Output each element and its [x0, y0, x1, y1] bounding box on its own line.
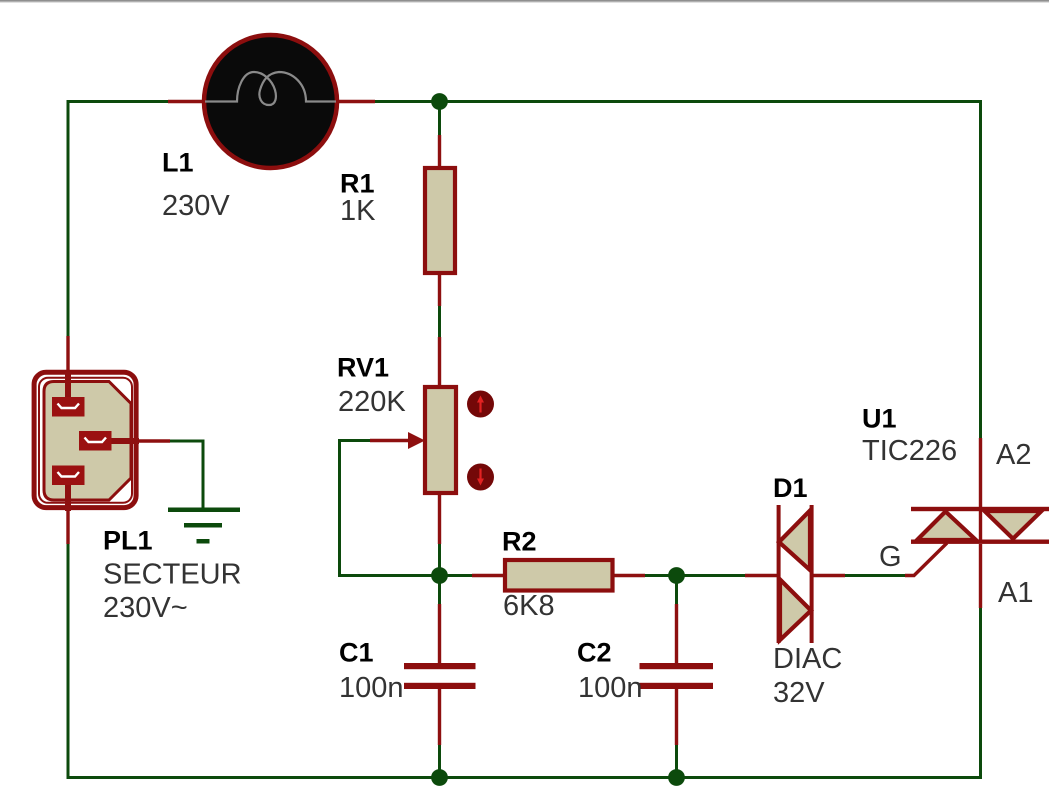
wire bottom rail green [67, 776, 983, 779]
svg-text:L1: L1 [162, 148, 194, 178]
svg-text:6K8: 6K8 [503, 590, 555, 622]
resistor R2 [505, 560, 613, 591]
wire node2 to C2 green [675, 576, 678, 605]
svg-text:100n: 100n [339, 672, 404, 704]
wire diac to gate green [845, 574, 905, 577]
wire plug top pin [66, 336, 69, 372]
wire RV1 wiper red segment [370, 439, 411, 442]
wire R2 to node2 green [645, 574, 677, 577]
svg-text:DIAC: DIAC [773, 643, 842, 675]
svg-text:220K: 220K [338, 386, 406, 418]
RV1 up indicator [467, 391, 494, 418]
wire C2 top pin [675, 604, 678, 664]
wire triac A2 pin [979, 438, 982, 507]
wire diac right pin [812, 574, 845, 577]
wire RV1 wiper green [340, 441, 440, 576]
svg-text:C2: C2 [577, 638, 612, 668]
svg-text:R2: R2 [502, 527, 537, 557]
wire node to C1 green [438, 576, 441, 605]
wire plug bottom pin [66, 509, 69, 544]
svg-text:A1: A1 [998, 577, 1033, 609]
wire R1 to RV1 green [438, 306, 441, 337]
ground [168, 508, 240, 544]
wire node to R2 green [440, 574, 473, 577]
wire RV1 to node green [438, 544, 441, 576]
wire RV1 top pin [438, 337, 441, 387]
wire R2 right pin [613, 574, 646, 577]
svg-text:230V~: 230V~ [103, 592, 188, 624]
wire C1 bottom pin [438, 688, 441, 745]
wire gate red [905, 543, 947, 576]
node junction bottom C1 [431, 769, 448, 786]
wire C1 top pin [438, 604, 441, 664]
node junction R2 left [431, 567, 448, 584]
connector PL1 [34, 372, 139, 511]
RV1 down indicator [467, 464, 494, 491]
wire top rail right green [375, 100, 982, 103]
wire lamp left pin [168, 100, 204, 103]
svg-text:PL1: PL1 [103, 526, 153, 556]
wire right rail lower green [979, 608, 982, 779]
wire C2 bottom pin [675, 688, 678, 745]
svg-text:32V: 32V [773, 677, 825, 709]
svg-text:A2: A2 [996, 439, 1031, 471]
wire R1 bottom pin [438, 273, 441, 306]
node junction bottom C2 [668, 769, 685, 786]
wire RV1 bottom pin [438, 493, 441, 544]
svg-text:230V: 230V [162, 190, 230, 222]
svg-text:TIC226: TIC226 [862, 435, 957, 467]
svg-text:1K: 1K [340, 195, 376, 227]
svg-text:100n: 100n [578, 672, 643, 704]
node junction R2 right [668, 567, 685, 584]
wire plug to ground green [170, 441, 203, 509]
wire R2 left pin [472, 574, 505, 577]
svg-text:U1: U1 [862, 404, 897, 434]
svg-text:G: G [879, 541, 902, 573]
potentiometer RV1 [408, 387, 456, 493]
wire C2 to bottom rail green [675, 745, 678, 778]
wire C1 to bottom rail green [438, 745, 441, 778]
wire left rail green [67, 100, 70, 336]
triac U1 [911, 507, 1049, 544]
wire lamp right pin [338, 100, 375, 103]
svg-text:RV1: RV1 [337, 353, 389, 383]
svg-text:D1: D1 [773, 473, 808, 503]
lamp L1 [204, 35, 337, 168]
wire triac A1 pin [979, 544, 982, 608]
diac D1 [777, 505, 814, 643]
wire node2 to diac green [677, 574, 746, 577]
wire left rail lower green [67, 544, 70, 779]
wire junction to R1 green [438, 102, 441, 136]
wire R1 top pin [438, 135, 441, 168]
node junction top [431, 93, 448, 110]
wire top rail left green [67, 100, 169, 103]
svg-text:C1: C1 [339, 638, 374, 668]
svg-text:SECTEUR: SECTEUR [103, 559, 242, 591]
wire diac left pin [745, 574, 777, 577]
capacitor C2 [640, 663, 714, 689]
wire plug middle pin red [112, 439, 171, 442]
resistor R1 [425, 168, 455, 273]
wire right rail upper green [979, 100, 982, 438]
capacitor C1 [404, 663, 476, 689]
